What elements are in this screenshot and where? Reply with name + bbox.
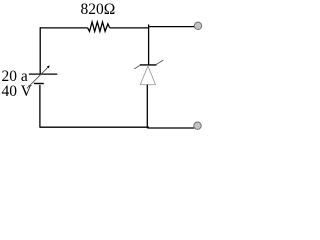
svg-text:40 V: 40 V xyxy=(2,83,33,100)
svg-text:820Ω: 820Ω xyxy=(81,1,116,18)
